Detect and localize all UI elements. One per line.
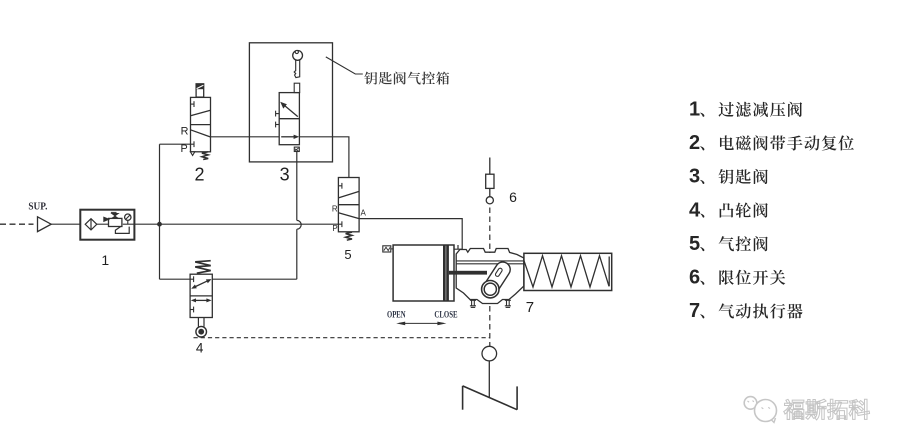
- svg-text:R: R: [332, 204, 338, 213]
- svg-text:7: 7: [526, 299, 534, 316]
- regulator relief loop: [115, 227, 129, 234]
- wire branch to valve 4: [160, 278, 191, 280]
- solenoid valve 2: [190, 84, 210, 160]
- svg-text:7: 7: [689, 300, 700, 322]
- valve 3 manual override box: [294, 83, 300, 92]
- actuator piston: [443, 245, 446, 300]
- svg-text:2: 2: [194, 165, 204, 185]
- open-close double arrow: [396, 322, 446, 326]
- wire dashed stem upper: [489, 208, 491, 254]
- valve 4 bottom port mark: [190, 309, 194, 311]
- valve 4 roller: [196, 326, 207, 337]
- valve 2 top square port mark: [191, 103, 195, 105]
- pneumatic actuator 7: [383, 245, 612, 307]
- wire valve 5 A output to actuator: [359, 219, 462, 250]
- wire valve 3 output to valve 5 pilot: [299, 137, 349, 178]
- regulator adjust bowtie: [111, 213, 118, 218]
- svg-text:3: 3: [280, 165, 290, 185]
- actuator mounting bolt right: [505, 300, 511, 307]
- wire dashed supply line: [0, 223, 34, 225]
- wire valve 2 output to valve 3: [211, 136, 280, 138]
- key symbol: [293, 50, 303, 77]
- valve 2 P port mark: [191, 143, 195, 145]
- filter-regulator unit 1 box: [80, 210, 134, 240]
- wire inside box: [97, 223, 109, 225]
- valve 5 return spring: [346, 232, 352, 240]
- svg-text:1: 1: [689, 99, 700, 121]
- valve 2 bottom square path: [191, 130, 211, 137]
- wire indicator stem: [488, 361, 490, 397]
- pilot valve 5: [338, 178, 359, 241]
- wire dashed stem lower: [489, 306, 491, 346]
- svg-text:6: 6: [689, 267, 700, 289]
- wire dashed cam follower line: [194, 337, 490, 339]
- actuator piston rod: [449, 271, 487, 275]
- svg-text:3: 3: [689, 166, 700, 188]
- actuator rod guides: [456, 260, 524, 262]
- svg-text:6: 6: [509, 189, 517, 205]
- valve 4 bottom square double arrow: [194, 299, 208, 301]
- svg-text:R: R: [181, 126, 189, 138]
- valve 3 left port marks: [276, 113, 280, 115]
- svg-text:5: 5: [689, 233, 700, 255]
- svg-text:4: 4: [196, 340, 204, 355]
- wire main supply line to valve 5: [134, 223, 338, 225]
- svg-text:4: 4: [689, 199, 701, 221]
- valve 4 roller stem: [197, 318, 199, 327]
- valve 2 exhaust arrow: [190, 152, 194, 156]
- solenoid coil symbol: [196, 84, 204, 97]
- actuator inlet fitting: [383, 246, 391, 252]
- leader line to label: [326, 57, 363, 74]
- actuator spring case: [524, 253, 612, 290]
- valve 2 top square path: [191, 110, 211, 116]
- svg-text:2: 2: [689, 132, 700, 154]
- actuator yoke housing: [456, 249, 524, 304]
- actuator cylinder: [393, 245, 454, 301]
- cam valve 4: [190, 261, 212, 337]
- svg-text:SUP.: SUP.: [28, 201, 47, 213]
- key valve control box enclosure: [249, 43, 332, 162]
- valve 4 spring: [195, 261, 211, 274]
- position indicator circle: [482, 346, 497, 361]
- wire left branch vertical: [159, 144, 161, 279]
- actuator mounting bolt left: [470, 300, 476, 307]
- valve 5 top port mark: [338, 185, 342, 187]
- limit switch 6: [486, 158, 494, 204]
- svg-text:P: P: [181, 143, 188, 155]
- wire valve 3 pilot line down with crossover hop: [296, 152, 298, 221]
- actuator spring: [524, 256, 609, 287]
- valve plug symbol: [463, 386, 517, 410]
- key valve 3: [276, 83, 300, 151]
- wire branch to valve 2 P port: [160, 143, 191, 145]
- svg-text:P: P: [332, 224, 337, 233]
- junction dot: [157, 222, 162, 227]
- valve 4 left port mark: [190, 278, 194, 280]
- actuator crank cylinder: [480, 259, 513, 299]
- valve 5 P port mark: [338, 223, 342, 225]
- regulator body: [104, 217, 109, 221]
- valve 4 top square arrow: [194, 280, 210, 287]
- valve 3 bottom square arrow: [281, 136, 295, 138]
- wire supply to filter-regulator: [51, 223, 80, 225]
- valve 3 bottom pilot box: [294, 147, 299, 151]
- svg-text:1: 1: [101, 252, 109, 268]
- actuator crank circle: [482, 281, 499, 298]
- wire valve 4 output up to valve 3: [212, 278, 296, 280]
- logo icon: [744, 397, 776, 423]
- logo text: [784, 399, 804, 419]
- svg-text:CLOSE: CLOSE: [434, 309, 458, 320]
- svg-text:5: 5: [344, 247, 351, 262]
- filter diamond: [85, 219, 97, 230]
- svg-text:OPEN: OPEN: [387, 309, 406, 320]
- supply source triangle: [38, 217, 52, 232]
- svg-text:A: A: [361, 208, 367, 217]
- gauge: [125, 214, 131, 220]
- valve 3 top square arrow: [283, 104, 298, 116]
- text key valve control box label: [364, 72, 377, 85]
- valve 2 return spring: [202, 152, 208, 160]
